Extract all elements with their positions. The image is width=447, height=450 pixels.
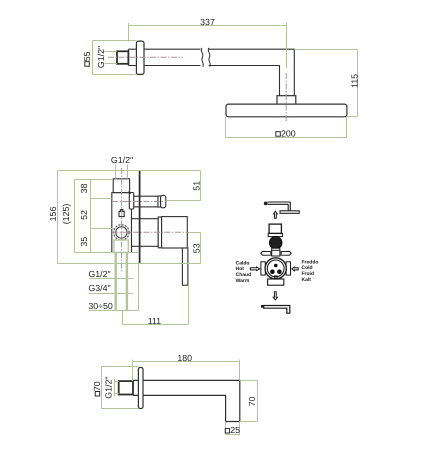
svg-text:70: 70 xyxy=(247,396,257,406)
svg-text:111: 111 xyxy=(148,316,161,326)
svg-text:(125): (125) xyxy=(61,204,71,225)
svg-text:G1/2": G1/2" xyxy=(104,376,114,398)
svg-text:25: 25 xyxy=(230,425,240,435)
svg-text:38: 38 xyxy=(79,184,89,194)
svg-text:G1/2": G1/2" xyxy=(88,269,110,279)
svg-text:Kalt: Kalt xyxy=(302,277,312,283)
svg-text:156: 156 xyxy=(48,207,58,222)
svg-text:115: 115 xyxy=(350,74,360,88)
svg-text:35: 35 xyxy=(79,237,89,247)
svg-text:G1/2": G1/2" xyxy=(111,155,133,165)
svg-text:G3/4": G3/4" xyxy=(88,283,110,293)
svg-text:70: 70 xyxy=(92,381,102,391)
svg-text:337: 337 xyxy=(200,17,215,27)
svg-text:30÷50: 30÷50 xyxy=(88,301,113,311)
svg-text:Warm: Warm xyxy=(236,278,250,284)
svg-text:180: 180 xyxy=(177,353,192,363)
svg-text:55: 55 xyxy=(82,51,92,61)
svg-text:53: 53 xyxy=(192,243,202,253)
svg-text:G1/2": G1/2" xyxy=(96,46,106,68)
svg-text:51: 51 xyxy=(192,181,202,191)
svg-text:52: 52 xyxy=(79,210,89,220)
svg-text:200: 200 xyxy=(281,129,296,139)
